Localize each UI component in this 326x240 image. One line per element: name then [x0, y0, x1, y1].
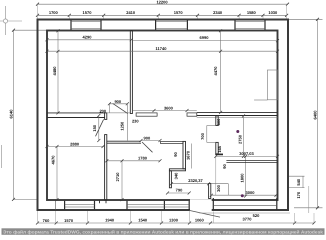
svg-text:150: 150: [92, 124, 97, 131]
corridor upper wall B (left): [47, 113, 105, 118]
svg-text:1250: 1250: [119, 121, 124, 131]
svg-text:790: 790: [176, 188, 183, 193]
vertical dim 2710: [56, 145, 248, 201]
svg-text:1300: 1300: [169, 218, 179, 223]
door dim 700: [207, 126, 216, 143]
svg-text:90: 90: [222, 164, 227, 169]
svg-text:2880: 2880: [70, 141, 80, 146]
interior wall A (between top rooms): [130, 31, 132, 114]
svg-text:6140: 6140: [9, 109, 14, 119]
svg-text:6990: 6990: [200, 35, 210, 40]
interior vertical dim 4480 (left room): [57, 29, 60, 113]
bottom dimension texts: [43, 213, 260, 223]
svg-text:600: 600: [216, 118, 221, 125]
svg-text:1030: 1030: [268, 10, 278, 15]
bottom ticks: [36, 222, 316, 225]
svg-text:165: 165: [217, 145, 222, 152]
bottom dimension line: [38, 222, 315, 224]
shaft / open door leaf rect top right: [267, 70, 277, 100]
svg-text:3600: 3600: [164, 105, 174, 110]
svg-text:1670: 1670: [185, 150, 190, 160]
svg-text:520: 520: [253, 213, 260, 218]
svg-text:2340: 2340: [213, 10, 223, 15]
bottom window 1: [56, 201, 95, 210]
svg-text:1940: 1940: [105, 218, 115, 223]
axis crosshair A (top-left): [0, 6, 22, 35]
svg-text:1580: 1580: [247, 10, 257, 15]
bathroom wall L-piece: [215, 153, 223, 155]
svg-text:700: 700: [200, 132, 205, 139]
svg-text:1570: 1570: [83, 10, 93, 15]
right small dimension 540: [288, 176, 305, 187]
svg-text:900: 900: [144, 136, 151, 141]
bottom extension lines: [38, 210, 315, 223]
svg-text:2410: 2410: [126, 10, 136, 15]
wall I (vertical, left-bottom rooms) with door opening: [105, 113, 107, 200]
top segment ticks: [36, 14, 288, 17]
svg-text:4470: 4470: [213, 66, 218, 76]
dim 1670 vertical right of wall F: [191, 144, 193, 169]
interior dim 6990: [132, 39, 279, 42]
svg-text:170: 170: [296, 191, 301, 198]
svg-text:6400: 6400: [312, 110, 317, 120]
2750 top tick: [242, 114, 245, 117]
top window 3: [235, 20, 265, 29]
corridor upper wall C (right, solid): [197, 113, 278, 118]
interior dim 4290: [46, 38, 133, 41]
wall G step: [169, 169, 185, 171]
svg-text:Это файл формата TrustedDWG, с: Это файл формата TrustedDWG, сохраненный…: [3, 229, 324, 234]
door leaf in wall I: [96, 119, 104, 136]
door J leaf: [113, 103, 128, 113]
svg-text:1780: 1780: [138, 156, 148, 161]
purple dot 1: [236, 130, 239, 133]
interior dim row y50.4 : 11740: [46, 50, 280, 53]
door 900 in wall H: [140, 139, 162, 142]
svg-text:2750: 2750: [237, 134, 242, 144]
top overall dimension line: [36, 3, 289, 6]
exterior door opening bottom: [190, 199, 212, 211]
outer wall: [38, 20, 289, 211]
dim 790: [166, 192, 191, 195]
svg-text:540: 540: [296, 178, 301, 185]
door H leaf: [142, 142, 153, 152]
svg-text:1800: 1800: [240, 173, 245, 183]
svg-text:90: 90: [173, 152, 178, 157]
svg-text:1570: 1570: [174, 10, 184, 15]
right middle partition M: [226, 160, 277, 162]
corridor lower wall H: [107, 140, 141, 142]
dim 1800 vertical: [245, 156, 247, 196]
dim 1780: [105, 159, 161, 162]
svg-text:1700: 1700: [49, 10, 59, 15]
left dimension 6140: [12, 29, 48, 201]
wall stub above door opening: [209, 184, 211, 199]
svg-text:2710: 2710: [115, 172, 120, 182]
vertical dim 4670 (bottom-left room): [56, 147, 58, 200]
dim 2750 vertical: [243, 116, 245, 156]
TrustedDWG banner: [2, 228, 325, 235]
dim 3000: [210, 194, 278, 197]
svg-text:11740: 11740: [156, 46, 168, 51]
top window 1: [71, 20, 101, 29]
corridor top openings middle (unfilled wall segments): [136, 113, 197, 116]
stub wall D with door (600/700): [216, 116, 218, 154]
porch line: [199, 212, 290, 214]
top segment dimension line: [38, 14, 287, 16]
small jamb ticks between windows: [99, 200, 101, 203]
svg-text:3000: 3000: [246, 190, 256, 195]
svg-text:1570: 1570: [64, 218, 74, 223]
svg-text:1540: 1540: [138, 218, 148, 223]
svg-text:200: 200: [99, 108, 106, 113]
unfilled wall segment right of door H: [161, 141, 184, 143]
dim 1250 (vertical, right of wall A): [126, 113, 128, 140]
svg-text:12200: 12200: [156, 0, 168, 4]
svg-text:230: 230: [132, 118, 139, 123]
inner wall face: [47, 31, 278, 201]
svg-text:900: 900: [114, 99, 121, 104]
exterior door leaf: [189, 210, 220, 217]
wall F: [183, 141, 186, 168]
dim 2320,37: [170, 182, 229, 195]
bottom window 2: [127, 201, 189, 210]
svg-text:760: 760: [43, 218, 50, 223]
svg-text:340: 340: [174, 172, 179, 179]
bottom window 3 (right): [213, 198, 276, 210]
svg-text:4290: 4290: [83, 34, 93, 39]
door dim 150: [97, 114, 100, 142]
door J in corridor top line (900): [107, 102, 131, 113]
right dimension line: [288, 18, 323, 210]
svg-text:3770: 3770: [243, 216, 253, 221]
interior vertical dim 4470 (right room): [220, 31, 222, 113]
top extension lines: [38, 4, 287, 19]
svg-text:300: 300: [216, 184, 221, 191]
svg-text:4670: 4670: [51, 155, 56, 165]
dim 3007,03: [214, 155, 279, 158]
svg-text:2320,37: 2320,37: [188, 178, 203, 183]
top segment dimension texts: [49, 10, 278, 15]
axis stub B (left edge, cropped): [1, 145, 3, 168]
dim 2880 (bottom-left room): [46, 145, 105, 148]
corridor middle dim 3600: [132, 110, 196, 112]
svg-text:1060: 1060: [195, 218, 205, 223]
purple dot 2: [241, 194, 244, 197]
svg-text:4480: 4480: [52, 66, 57, 76]
top window 2: [156, 20, 188, 29]
